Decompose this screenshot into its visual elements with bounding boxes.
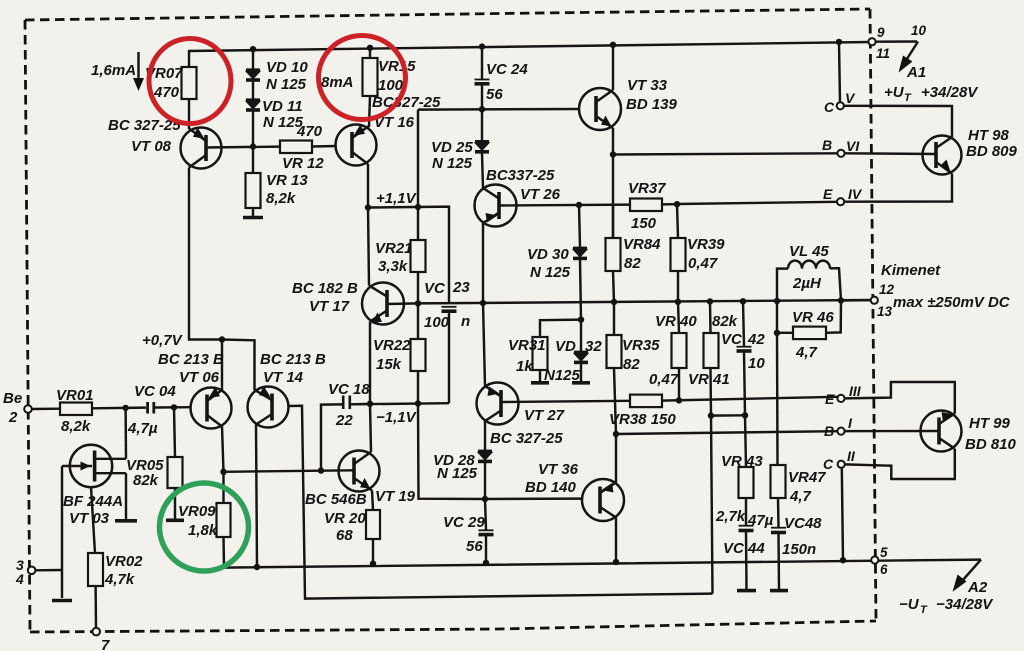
svg-text:E: E <box>823 186 833 202</box>
svg-text:−34/28V: −34/28V <box>936 596 994 613</box>
wire VT03 gate column <box>61 466 63 598</box>
wire HT99 collector staircase to C II <box>845 449 955 479</box>
svg-text:HT 99: HT 99 <box>969 415 1011 432</box>
svg-text:470: 470 <box>153 84 180 101</box>
wire VR20 to bottom rail <box>372 539 374 564</box>
wire terminal 3/4 to gate column <box>35 569 62 572</box>
svg-text:82k: 82k <box>133 472 159 489</box>
wire VR09 to bottom rail corner <box>224 537 982 568</box>
transistor VT33 BD139 <box>579 88 621 130</box>
wire VT03 source to ground <box>125 473 127 519</box>
wire VD30 top lead <box>579 205 580 247</box>
terminal 3/4 <box>28 567 36 575</box>
svg-text:BC 327-25: BC 327-25 <box>490 430 563 447</box>
wire VR02 to terminal 7 <box>94 586 97 628</box>
svg-text:VR01: VR01 <box>56 387 94 404</box>
svg-text:100: 100 <box>378 77 404 94</box>
node dot -1,1V VR22 <box>415 400 421 406</box>
svg-text:C: C <box>824 99 835 115</box>
svg-text:+0,7V: +0,7V <box>142 332 184 349</box>
svg-text:VR 41: VR 41 <box>688 371 730 388</box>
resistor VR20 68 <box>324 491 380 545</box>
svg-text:VR31: VR31 <box>508 337 546 354</box>
wire VD11 to base node <box>252 111 254 147</box>
capacitor VC42 10 <box>721 301 765 372</box>
resistor VR41 82k <box>688 302 738 389</box>
node dot VT06 collector VR09 <box>220 469 226 475</box>
node dot rail VT17 base <box>415 300 421 306</box>
svg-text:VR35: VR35 <box>622 337 660 354</box>
wire VT03 drain up to input node <box>124 408 127 459</box>
wire output column down to VR47 <box>776 333 779 465</box>
wire Kimenet output stub <box>841 299 871 302</box>
inductor VL45 2uH loop <box>777 243 841 301</box>
wire VD10 to VD11 <box>252 81 254 99</box>
svg-text:VD 30: VD 30 <box>527 246 569 263</box>
resistor VR39 0,47 <box>671 204 726 272</box>
svg-text:N 125: N 125 <box>432 155 473 172</box>
node dot VT33 emitter B rail <box>610 151 616 157</box>
terminal E III <box>837 395 844 402</box>
svg-text:N 125: N 125 <box>530 264 571 281</box>
wire VR21 column top <box>417 207 419 240</box>
svg-text:VD: VD <box>555 338 576 355</box>
wire VD28 node to VT36 base <box>485 497 582 500</box>
wire x418 column upper <box>417 110 419 207</box>
wire -1,1V down branch to VD28 node <box>418 404 485 500</box>
node dot bottom rail VR20 <box>370 560 376 566</box>
wire VC24 bottom rail to VT33 base <box>418 108 579 111</box>
diode VD30 N125 <box>527 246 587 281</box>
svg-text:III: III <box>849 383 862 399</box>
svg-text:VR39: VR39 <box>687 236 725 253</box>
terminal E IV <box>837 198 844 205</box>
capacitor VC48 150n <box>771 515 822 558</box>
svg-text:4,7: 4,7 <box>789 488 812 505</box>
svg-text:6: 6 <box>880 562 888 577</box>
dashed enclosure border bottom <box>30 621 876 632</box>
svg-text:VC 24: VC 24 <box>486 61 528 78</box>
svg-text:VR15: VR15 <box>378 58 416 75</box>
wire VT19 collector up <box>370 404 371 452</box>
svg-text:VT 14: VT 14 <box>263 369 304 386</box>
svg-text:B: B <box>824 423 834 439</box>
svg-text:VR 46: VR 46 <box>792 309 834 326</box>
wire VR37 right to E node <box>662 203 677 206</box>
svg-text:VT 03: VT 03 <box>69 510 110 527</box>
resistor VR05 82k <box>126 457 183 489</box>
wire VR39 to rail <box>677 271 679 302</box>
transistor VT19 BC546B <box>339 451 380 492</box>
wire VT26 emitter down to rail <box>482 223 484 303</box>
wire VT26 base to VR37 <box>499 203 630 206</box>
wire C V vertical from top rail <box>839 42 840 102</box>
resistor VR37 150 <box>628 180 666 232</box>
svg-text:−1,1V: −1,1V <box>376 409 418 426</box>
terminal B VI <box>837 150 844 157</box>
wire E IV rail from VR37 <box>677 202 837 204</box>
node dot rail VR39 VR40 <box>675 299 681 305</box>
svg-text:VT 27: VT 27 <box>524 407 565 424</box>
arrow A1 <box>899 42 919 73</box>
capacitor VC44 47u electrolytic <box>723 512 774 557</box>
wire VR15 top lead <box>369 48 371 58</box>
wire B rail <box>616 431 837 434</box>
transistor VT17 BC182B <box>362 283 404 325</box>
svg-text:VD 25: VD 25 <box>431 139 473 156</box>
svg-text:VR 20: VR 20 <box>324 510 366 527</box>
node dot VR46 left <box>774 330 780 336</box>
svg-text:+1,1V: +1,1V <box>376 190 418 207</box>
terminal C V <box>837 102 844 109</box>
resistor VR07 470 <box>145 65 197 101</box>
svg-text:82: 82 <box>624 255 641 272</box>
wire VC29 to bottom rail <box>485 535 487 563</box>
svg-text:1,8k: 1,8k <box>188 522 218 539</box>
svg-text:VR 43: VR 43 <box>721 453 763 470</box>
svg-text:VC: VC <box>721 331 743 348</box>
node dot VC24 bottom <box>479 106 485 112</box>
wire VR47 to VC48 <box>777 498 780 527</box>
svg-text:VR 12: VR 12 <box>282 155 324 172</box>
annotation red circle around VR07 <box>149 39 231 124</box>
svg-text:IV: IV <box>848 186 863 202</box>
node dot E rail VR40 <box>676 397 682 403</box>
svg-text:1k: 1k <box>516 358 533 375</box>
diode VD32 N125 <box>544 338 602 384</box>
svg-text:BD 809: BD 809 <box>966 143 1018 160</box>
wire terminal 9 to A1 arrow <box>876 40 917 43</box>
svg-text:BC337-25: BC337-25 <box>486 167 555 184</box>
wire VT17 emitter down <box>369 322 371 404</box>
transistor VT03 BF244A junction FET <box>62 445 126 487</box>
svg-text:VD 10: VD 10 <box>266 59 308 76</box>
node dot top rail VT33 <box>610 42 616 48</box>
wire VT16 collector to +1,1V node <box>367 164 369 208</box>
svg-text:32: 32 <box>585 338 602 355</box>
wire VR31 to ground <box>539 370 541 381</box>
wire VR35 to B node <box>614 368 616 434</box>
svg-text:4: 4 <box>15 571 24 587</box>
transistor VT08 BC327-25 <box>181 128 222 169</box>
wire VR07 top lead <box>188 51 190 67</box>
wire VC24 bottom lead <box>481 84 483 109</box>
transistor VT36 BD140 <box>582 479 624 521</box>
svg-text:VT 08: VT 08 <box>131 138 172 155</box>
capacitor VC23 100n <box>424 279 470 331</box>
node dot rail VC42 <box>740 298 746 304</box>
wire VR15 to VT16 emitter <box>369 96 370 127</box>
wire E IV to HT98 emitter <box>844 174 952 202</box>
current source arrow 1.6mA <box>133 52 144 91</box>
svg-text:8,2k: 8,2k <box>266 190 296 207</box>
svg-text:13: 13 <box>877 304 893 319</box>
wire VR13 to ground <box>252 208 254 216</box>
svg-text:BD 139: BD 139 <box>626 96 678 113</box>
dashed enclosure border right <box>870 9 876 621</box>
ground below VR13 <box>243 216 263 220</box>
svg-text:Kimenet: Kimenet <box>881 262 941 279</box>
svg-text:VR21: VR21 <box>375 240 413 257</box>
svg-text:10: 10 <box>748 355 765 372</box>
svg-text:VC 29: VC 29 <box>443 514 485 531</box>
svg-text:VT 19: VT 19 <box>375 488 416 505</box>
node dot VR37 right <box>674 201 680 207</box>
resistor VR46 4,7 <box>777 301 841 362</box>
capacitor VC29 56 <box>443 514 494 555</box>
terminal C II <box>838 461 845 468</box>
terminal 7 <box>92 628 100 636</box>
svg-text:VT 26: VT 26 <box>520 186 561 203</box>
svg-text:VC 44: VC 44 <box>723 540 765 557</box>
capacitor VC04 4,7u <box>127 383 176 437</box>
terminal Kimenet 12/13 <box>871 297 878 304</box>
svg-text:VR 40: VR 40 <box>655 313 697 330</box>
annotation red circle around VR15 <box>319 36 406 120</box>
wire VT14 collector down <box>256 425 257 568</box>
input terminal Be 2 <box>24 405 32 413</box>
ground below VD32 <box>572 381 590 385</box>
svg-text:max ±250mV DC: max ±250mV DC <box>893 294 1011 311</box>
svg-text:BC 213 B: BC 213 B <box>158 351 224 368</box>
ground below VR31 <box>531 381 549 385</box>
svg-text:+U: +U <box>884 84 905 101</box>
wire link VR41 to VC42 column <box>711 414 745 417</box>
svg-text:Be: Be <box>3 390 22 407</box>
wire B I to HT99 base <box>845 430 939 433</box>
ground below gate column <box>52 599 72 603</box>
wire VD25 to VT26 collector <box>482 153 483 189</box>
resistor VR47 4,7 <box>771 465 827 505</box>
dashed enclosure border top <box>25 9 870 20</box>
svg-text:n: n <box>461 313 470 330</box>
node dot rail VT26 emitter <box>480 300 486 306</box>
resistor VR40 <box>655 302 697 368</box>
svg-text:7: 7 <box>101 637 110 651</box>
svg-text:10: 10 <box>911 23 927 38</box>
resistor VR22 15k <box>373 303 426 373</box>
resistor VR01 8,2k <box>56 387 94 435</box>
wire VT06 emitter <box>221 340 223 391</box>
annotation green circle around VR09 <box>160 483 249 571</box>
svg-text:+34/28V: +34/28V <box>921 84 979 101</box>
node dot rail VR41 <box>707 298 713 304</box>
node dot link VC42 column <box>742 412 748 418</box>
transistor HT98 BD809 <box>923 136 962 175</box>
node dot bottom rail VT14 <box>254 564 260 570</box>
svg-text:11: 11 <box>876 46 890 61</box>
wire VT33 emitter down <box>612 128 614 238</box>
svg-text:VR02: VR02 <box>105 553 143 570</box>
svg-text:8,2k: 8,2k <box>61 418 91 435</box>
wire VC44 to ground <box>745 531 748 589</box>
svg-text:15k: 15k <box>376 356 402 373</box>
svg-text:B: B <box>822 137 832 153</box>
svg-text:3,3k: 3,3k <box>378 258 408 275</box>
ground below VC44 <box>737 589 756 593</box>
transistor VT27 BC327-25 <box>477 383 519 425</box>
wire E rail VR38 section <box>662 397 838 401</box>
svg-text:VT 36: VT 36 <box>538 461 579 478</box>
wire VD32 to ground <box>580 364 582 381</box>
wire VR40 to E rail <box>678 368 680 400</box>
wire VT36 collector to bottom rail <box>615 518 617 563</box>
wire top rail to VD10 <box>252 49 254 69</box>
svg-text:VR22: VR22 <box>373 337 411 354</box>
svg-text:VR47: VR47 <box>788 469 826 486</box>
wire VT27 collector down to VD28 <box>484 421 486 450</box>
wire VT27 emitter up to rail <box>483 303 485 386</box>
node dot bottom rail VC29 <box>483 560 489 566</box>
resistor VR13 8,2k <box>246 172 309 208</box>
node dot -1,1V VT17 emitter <box>367 401 373 407</box>
node dot VD28 bottom <box>482 496 488 502</box>
wire VR84 to rail <box>613 271 614 302</box>
svg-text:−U: −U <box>899 596 920 613</box>
wire VT03 bottom to VR02 <box>91 487 95 553</box>
svg-text:BC 213 B: BC 213 B <box>260 351 326 368</box>
wire C to HT98 collector <box>844 106 952 137</box>
node dot VR31 VD32 <box>578 316 584 322</box>
wire VR05 column <box>174 407 175 457</box>
wire top supply rail <box>188 42 871 51</box>
svg-text:N 125: N 125 <box>437 465 478 482</box>
wire VC29 top lead <box>485 499 486 530</box>
svg-text:VL 45: VL 45 <box>789 243 829 260</box>
node dot B rail VT36 <box>613 431 619 437</box>
svg-text:II: II <box>847 448 856 464</box>
wire VC18 left to corner <box>321 404 342 470</box>
svg-text:150: 150 <box>631 215 657 232</box>
transistor VT16 BC327-25 <box>336 125 377 166</box>
svg-text:BC 182 B: BC 182 B <box>292 280 358 297</box>
wire C II column to bottom rail <box>842 468 843 561</box>
svg-text:22: 22 <box>335 412 353 429</box>
svg-text:VR09: VR09 <box>178 503 216 520</box>
transistor VT06 BC213B <box>191 387 232 429</box>
svg-text:VR38 150: VR38 150 <box>609 411 676 428</box>
capacitor VC18 22 <box>328 381 370 429</box>
wire VC42 column to VR43 <box>745 415 746 467</box>
svg-text:VC48: VC48 <box>784 515 822 532</box>
wire VC04 to VT06 base <box>155 406 191 409</box>
capacitor VC24 56 <box>475 61 529 103</box>
svg-text:2µH: 2µH <box>792 275 822 292</box>
svg-text:2: 2 <box>8 409 18 426</box>
svg-text:BC 546B: BC 546B <box>305 491 367 508</box>
svg-text:5: 5 <box>880 545 888 560</box>
wire VC23 bottom to -1,1V <box>448 311 450 403</box>
svg-text:4,7: 4,7 <box>795 344 818 361</box>
wire VR05 to ground <box>174 488 176 519</box>
svg-text:56: 56 <box>486 86 503 103</box>
wire VT19 base rail <box>224 470 355 472</box>
svg-text:2,7k: 2,7k <box>715 508 746 525</box>
svg-text:BD 140: BD 140 <box>525 479 577 496</box>
wire VC48 to ground <box>777 533 780 589</box>
svg-text:C: C <box>823 456 834 472</box>
wire VT08 base <box>206 145 280 148</box>
svg-text:N 125: N 125 <box>266 76 307 93</box>
wire VR12 to VT16 base <box>312 145 337 148</box>
wire B VI to HT98 base <box>845 152 936 155</box>
node dot +0,7V VT06 emitter <box>219 336 225 342</box>
svg-text:150n: 150n <box>782 541 816 558</box>
node dot VR05 top VT06 base <box>171 404 177 410</box>
wire VR13 top lead <box>252 147 254 173</box>
arrow A2 <box>953 560 982 592</box>
svg-text:4,7k: 4,7k <box>104 571 135 588</box>
svg-text:82: 82 <box>623 356 640 373</box>
wire VR22 to -1,1V node <box>417 371 419 404</box>
svg-text:100: 100 <box>424 314 450 331</box>
svg-text:0,47: 0,47 <box>649 371 679 388</box>
transistor VT26 BC337-25 <box>475 185 517 227</box>
wire VR31 branch <box>540 320 581 337</box>
wire VT17 base to rail <box>387 302 418 305</box>
resistor VR35 82 <box>607 335 661 373</box>
svg-text:82k: 82k <box>712 313 738 330</box>
wire E III to HT99 emitter <box>845 382 955 414</box>
node dot rail VR35 <box>611 299 617 305</box>
wire +0,7V to VT14 emitter corner <box>222 340 255 391</box>
node dot +1,1V left <box>365 204 371 210</box>
terminal B I <box>837 428 844 435</box>
svg-text:A2: A2 <box>967 579 988 596</box>
svg-text:470: 470 <box>296 123 323 140</box>
wire VD30 to VR31 node <box>580 260 581 320</box>
wire VT14 base corner down to bottom rail <box>289 406 713 599</box>
resistor VR15 100 <box>363 58 417 96</box>
node dot +1,1V VR21 column <box>415 204 421 210</box>
resistor VR31 1k <box>508 337 548 375</box>
node dot top rail terminal 9 <box>836 39 842 45</box>
svg-text:VC 04: VC 04 <box>134 383 176 400</box>
diode VD10 N125 <box>246 59 308 93</box>
svg-text:VR37: VR37 <box>628 180 666 197</box>
wire VT27 base E rail <box>501 401 630 402</box>
svg-text:68: 68 <box>336 527 353 544</box>
svg-text:9: 9 <box>877 25 885 40</box>
resistor VR02 4,7k <box>88 553 143 588</box>
wire VT08 collector down to +0,7V corner <box>189 168 222 340</box>
resistor VR84 82 <box>606 205 662 272</box>
wire VR41 down through E rail to link <box>709 368 712 416</box>
svg-text:VD 11: VD 11 <box>262 98 303 115</box>
wire VT17 collector up <box>368 208 369 286</box>
wire VT36 emitter up to B node <box>615 434 617 483</box>
wire VD32 top lead <box>580 320 582 351</box>
svg-text:56: 56 <box>466 538 483 555</box>
ground below VC48 <box>770 589 788 593</box>
svg-text:VR 13: VR 13 <box>266 172 308 189</box>
wire VC42 bottom to link <box>744 351 745 415</box>
svg-text:VR84: VR84 <box>623 236 661 253</box>
svg-text:VT 17: VT 17 <box>309 298 350 315</box>
svg-text:42: 42 <box>747 331 765 348</box>
svg-text:VI: VI <box>846 138 860 154</box>
wire VR07 to VT08 emitter <box>188 99 190 129</box>
node dot VT19 base wire <box>318 467 324 473</box>
node dot rail VL45 left <box>774 298 780 304</box>
resistor VR43 2,7k <box>715 453 763 525</box>
svg-text:8mA: 8mA <box>321 74 354 91</box>
node dot bottom rail C II column <box>840 557 846 563</box>
wire VC18 right plate to dot <box>351 403 370 406</box>
resistor VR09 1,8k <box>178 472 231 539</box>
svg-text:A1: A1 <box>906 64 926 81</box>
ground below VT03 source <box>115 519 137 523</box>
